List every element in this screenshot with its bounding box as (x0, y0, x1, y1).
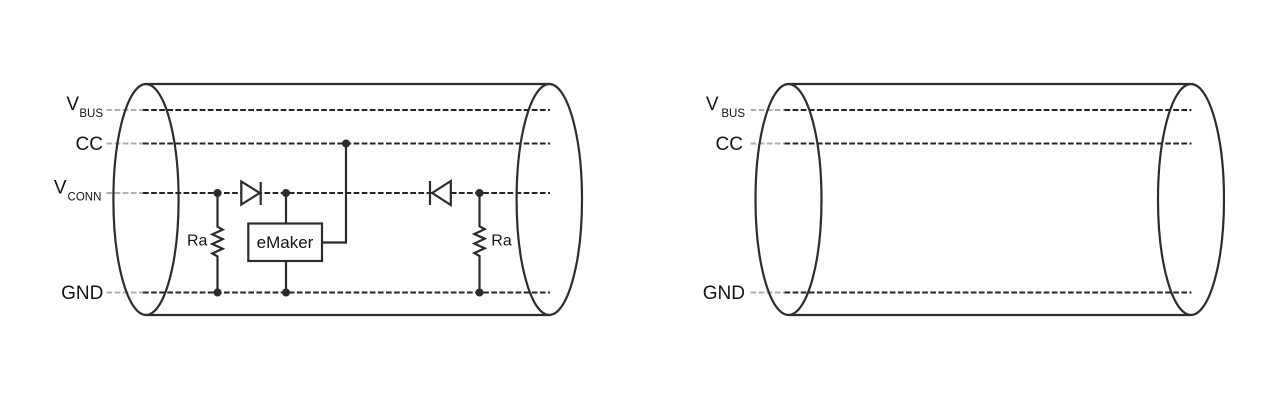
svg-text:CONN: CONN (68, 191, 102, 203)
svg-text:Ra: Ra (187, 233, 208, 250)
svg-text:GND: GND (61, 283, 103, 304)
svg-text:CC: CC (716, 134, 743, 155)
svg-text:V: V (706, 94, 719, 115)
svg-text:GND: GND (703, 283, 745, 304)
svg-text:V: V (54, 178, 67, 199)
svg-text:Ra: Ra (491, 233, 512, 250)
svg-text:BUS: BUS (79, 108, 103, 120)
svg-text:BUS: BUS (721, 108, 745, 120)
svg-text:V: V (66, 94, 79, 115)
svg-text:CC: CC (76, 134, 103, 155)
svg-text:eMaker: eMaker (257, 233, 314, 252)
